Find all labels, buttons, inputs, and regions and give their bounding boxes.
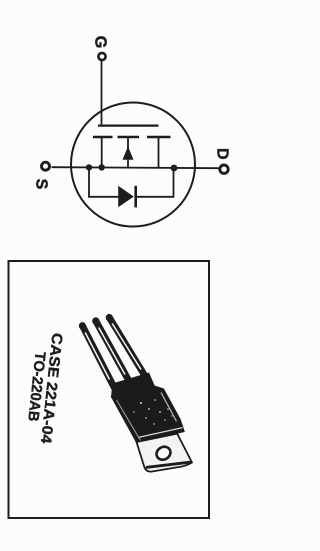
svg-text:D: D [214,148,231,160]
svg-text:S: S [33,179,50,190]
svg-text:G: G [92,36,109,48]
